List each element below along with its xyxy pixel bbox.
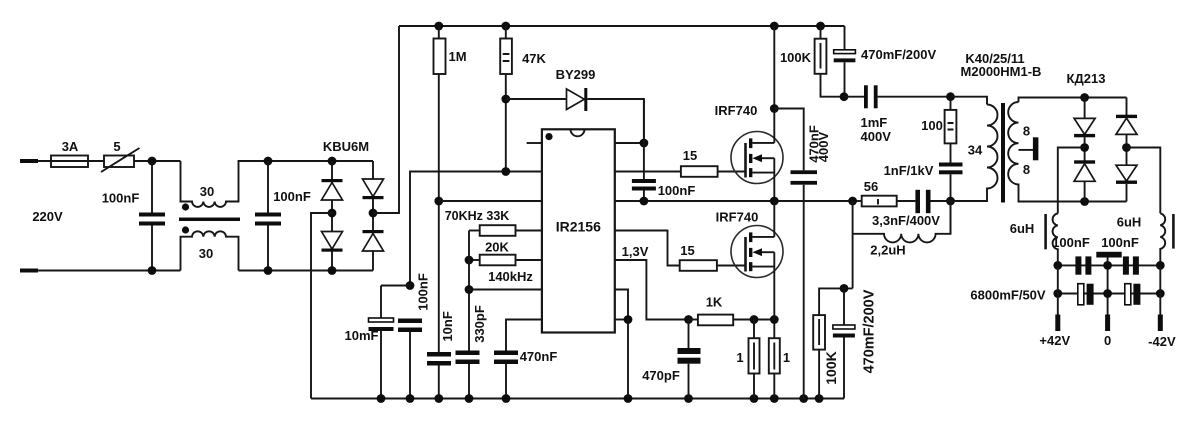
node bridge plus	[369, 209, 378, 218]
node out row2	[1103, 289, 1112, 298]
diode КД213 D7 (right-top)	[1126, 98, 1128, 116]
node ground 100K	[815, 394, 824, 403]
Q1 drain stub	[752, 142, 774, 144]
terminal 0	[1105, 315, 1110, 332]
svg-text:100nF: 100nF	[1052, 235, 1090, 250]
svg-text:220V: 220V	[32, 209, 63, 224]
node ground pin8	[624, 394, 633, 403]
node 470nF400V tap	[770, 104, 779, 113]
resistor 100K (lower)	[813, 315, 825, 350]
resistor 1 (left)	[753, 320, 755, 339]
wire pin12 (VS) to switch node	[615, 200, 853, 202]
svg-text:400V: 400V	[861, 129, 892, 144]
capacitor 1mF/400V	[844, 96, 864, 98]
svg-text:470mF/200V: 470mF/200V	[862, 289, 878, 373]
capacitor 10nF	[427, 352, 451, 357]
wire bridge plus to top rail	[373, 26, 399, 213]
capacitor 470nF/400V	[774, 109, 803, 171]
node 10mF junction	[406, 281, 415, 290]
wire pin8 (COM)	[615, 319, 628, 321]
svg-text:400V: 400V	[816, 131, 831, 162]
svg-text:1nF/1kV: 1nF/1kV	[884, 163, 934, 178]
capacitor 470mF/200V (upper)	[844, 26, 846, 50]
node pin12 bootstrap return	[640, 197, 649, 206]
resistor 1M	[438, 26, 440, 39]
fuse 3A	[51, 156, 88, 168]
choke winding 30 (bottom)	[181, 231, 239, 270]
svg-text:1M: 1M	[448, 49, 466, 64]
svg-text:70KHz 33K: 70KHz 33K	[445, 209, 510, 223]
svg-text:100K: 100K	[823, 351, 839, 384]
resistor 100K (upper)	[820, 26, 822, 39]
svg-text:470pF: 470pF	[642, 368, 680, 383]
IC pin1 marker dot	[545, 133, 552, 140]
svg-text:1mF: 1mF	[861, 115, 888, 130]
node out row1	[1053, 261, 1062, 270]
capacitor 6800mF/50V (left)	[1078, 284, 1084, 305]
IC notch	[571, 129, 585, 136]
node 47K to pin2	[501, 167, 510, 176]
capacitor 100nF (input)	[151, 161, 153, 213]
varistor 5	[104, 156, 134, 168]
svg-text:6uH: 6uH	[1010, 221, 1035, 236]
zero bus bar	[1096, 252, 1121, 258]
svg-text:BY299: BY299	[556, 67, 596, 82]
svg-text:47K: 47K	[522, 51, 546, 66]
node BY299 anode junction	[501, 95, 510, 104]
wire pin9	[615, 290, 628, 320]
node out row1	[1103, 261, 1112, 270]
svg-text:470nF: 470nF	[520, 349, 558, 364]
node ground 10mF	[377, 394, 386, 403]
wire lower divider	[819, 288, 853, 315]
capacitor 100nF (after choke)	[267, 161, 269, 213]
Q1 gate plate	[744, 143, 747, 178]
svg-text:10mF: 10mF	[345, 328, 379, 343]
resistor 15 (upper gate)	[681, 166, 718, 177]
node plus output	[1080, 143, 1089, 152]
node rail 100K	[816, 22, 825, 31]
node 1K left junction	[684, 315, 693, 324]
wire 1M to pin3	[438, 74, 440, 352]
wire output row2	[1058, 293, 1161, 295]
svg-text:330pF: 330pF	[472, 305, 487, 343]
node primary bottom	[946, 197, 955, 206]
wire pin13 (HO)	[615, 171, 681, 173]
Q2 source stub	[752, 266, 774, 268]
inductor 6uH (left)	[1053, 214, 1058, 266]
node rail 1M	[434, 22, 443, 31]
capacitor 470pF	[688, 320, 690, 349]
diode bridge D3 (top-right)	[372, 161, 374, 179]
resistor 47K	[505, 26, 507, 39]
svg-text:6uH: 6uH	[1117, 215, 1142, 230]
wire pin8 to ground	[627, 320, 629, 399]
wire minus branch	[1127, 148, 1161, 214]
capacitor 10mF electrolytic	[381, 285, 410, 287]
diode bridge D4 (bottom-right)	[372, 213, 374, 234]
svg-text:+42V: +42V	[1039, 333, 1070, 348]
node 20K left	[465, 256, 474, 265]
node R1a top	[750, 315, 759, 324]
node fuse/cap junction (top)	[148, 157, 157, 166]
svg-text:KBU6M: KBU6M	[323, 139, 369, 154]
wire drain bus Q1	[773, 26, 775, 143]
transistor IRF740 Q2 circle	[731, 226, 783, 278]
node ground 100nF	[406, 394, 415, 403]
node pin14 junction	[640, 139, 649, 148]
node pin8/9 junction	[624, 315, 633, 324]
wire Q2 source down	[773, 252, 775, 338]
svg-text:15: 15	[683, 148, 697, 163]
capacitor 470mF/200V (lower)	[843, 288, 845, 325]
diode bridge D1 (top-left)	[331, 161, 333, 183]
choke core	[179, 218, 240, 222]
wire +42V terminal	[1057, 265, 1059, 315]
svg-text:100nF: 100nF	[415, 273, 430, 311]
svg-text:0: 0	[1104, 333, 1111, 348]
svg-text:IRF740: IRF740	[715, 103, 758, 118]
Q1 source stub	[752, 172, 774, 174]
node bottom junction	[148, 266, 157, 275]
svg-text:-42V: -42V	[1148, 334, 1176, 349]
svg-text:6800mF/50V: 6800mF/50V	[970, 288, 1045, 303]
svg-text:IR2156: IR2156	[556, 219, 601, 235]
svg-text:1K: 1K	[706, 295, 723, 310]
svg-text:100K: 100K	[780, 50, 812, 65]
Q2 body stub with arrow	[761, 251, 774, 253]
capacitor 1nF/1kV	[939, 163, 963, 167]
transformer core	[1001, 103, 1005, 203]
node bridge bottom-left	[328, 266, 337, 275]
svg-text:100nF: 100nF	[273, 189, 311, 204]
wire pin10 (CS)	[615, 260, 689, 320]
node choke out top	[264, 157, 273, 166]
svg-text:2,2uH: 2,2uH	[870, 243, 905, 258]
svg-text:8: 8	[1023, 124, 1030, 139]
wire plus branch	[1058, 148, 1085, 214]
wire pin11 (LO)	[615, 231, 680, 266]
diode КД213 D6 (left-bottom)	[1084, 148, 1086, 161]
node bridge minus	[328, 209, 337, 218]
Q1 channel segments	[749, 138, 752, 148]
resistor 33K	[469, 230, 480, 232]
wire input bottom rail	[38, 270, 181, 272]
svg-text:15: 15	[680, 243, 694, 258]
capacitor 100nF (supply)	[398, 319, 422, 324]
node ground 470pF	[684, 394, 693, 403]
svg-text:100nF: 100nF	[1101, 235, 1139, 250]
Q2 gate plate	[744, 237, 747, 272]
wire choke to bridge (bottom)	[239, 270, 374, 272]
svg-text:5: 5	[113, 139, 120, 154]
svg-text:30: 30	[200, 184, 214, 199]
secondary center tap	[1019, 149, 1034, 151]
wire bridge minus to ground rail	[311, 213, 332, 399]
node ground 330pF	[465, 394, 474, 403]
node minus output	[1122, 143, 1131, 152]
wire pin6	[469, 289, 542, 291]
svg-text:56: 56	[864, 179, 878, 194]
Q1 body-source tie	[773, 158, 775, 201]
svg-text:1,3V: 1,3V	[622, 244, 649, 259]
svg-text:1: 1	[736, 350, 743, 365]
transistor IRF740 Q1 circle	[731, 132, 783, 184]
IC pin1 stub	[527, 142, 542, 144]
wire -42V terminal	[1159, 265, 1161, 315]
svg-text:8: 8	[1023, 162, 1030, 177]
svg-text:M2000HM1-B: M2000HM1-B	[961, 64, 1042, 79]
wire pin2 (RT line)	[410, 172, 542, 286]
wire frequency node	[468, 231, 470, 351]
capacitor 470nF (pin7)	[506, 320, 542, 351]
transformer primary winding 34	[951, 97, 988, 105]
op-amp/IC IR2156 body	[542, 129, 615, 332]
node bus divider	[840, 92, 849, 101]
node ground R1b	[770, 394, 779, 403]
node out row2	[1156, 289, 1165, 298]
resistor 56	[853, 200, 862, 202]
svg-text:100: 100	[921, 118, 943, 133]
node ground 470nF	[502, 394, 511, 403]
node out row1	[1156, 261, 1165, 270]
transformer secondary winding	[1019, 98, 1127, 103]
diode BY299	[506, 98, 567, 100]
svg-text:3,3nF/400V: 3,3nF/400V	[872, 213, 940, 228]
node 56 left junction	[848, 197, 857, 206]
svg-text:140kHz: 140kHz	[488, 269, 533, 284]
capacitor 330pF	[456, 351, 480, 356]
wire Q2 drain from switch node	[773, 201, 775, 237]
svg-text:30: 30	[199, 246, 213, 261]
wire output row1	[1058, 264, 1161, 266]
wire choke to bridge (top)	[239, 160, 374, 162]
220V input terminal (top)	[20, 159, 38, 163]
node ground 470nF400V	[799, 394, 808, 403]
svg-text:IRF740: IRF740	[716, 210, 759, 225]
wire varistor to node	[134, 160, 181, 162]
Q1 body stub with arrow	[761, 157, 774, 159]
node cap bottom	[264, 266, 273, 275]
wire +DC top rail	[399, 25, 845, 27]
choke phase dot (top)	[182, 203, 189, 210]
wire pin14 (VB)	[615, 142, 644, 144]
resistor 15 (lower gate)	[680, 260, 717, 271]
node pin3 junction	[434, 197, 443, 206]
svg-text:100nF: 100nF	[102, 191, 140, 206]
node ground R1a	[750, 394, 759, 403]
node rail 47K	[501, 22, 510, 31]
svg-text:10nF: 10nF	[440, 311, 455, 341]
capacitor 6800mF/50V (right)	[1125, 284, 1131, 305]
inductor 2,2uH	[852, 201, 854, 288]
wire input top to fuse	[38, 160, 104, 162]
svg-text:20K: 20K	[485, 240, 509, 255]
svg-text:3A: 3A	[62, 139, 79, 154]
wire 47K down	[505, 74, 507, 172]
choke phase dot (bottom)	[182, 226, 189, 233]
capacitor 100nF (out right)	[1123, 256, 1129, 274]
node switch node	[770, 197, 779, 206]
svg-text:100nF: 100nF	[658, 183, 696, 198]
wire pin3	[439, 200, 542, 202]
node ground 10nF	[434, 394, 443, 403]
svg-text:34: 34	[968, 143, 983, 158]
resistor 20K	[469, 259, 480, 261]
diode bridge D2 (bottom-left)	[331, 213, 333, 232]
diode КД213 D8 (right-bottom)	[1126, 148, 1128, 166]
inductor 6uH (right)	[1160, 213, 1165, 265]
svg-text:КД213: КД213	[1067, 71, 1106, 86]
Q2 channel segments	[749, 232, 752, 242]
node secondary top	[1080, 93, 1089, 102]
node primary top	[946, 92, 955, 101]
node rail drain	[770, 22, 779, 31]
capacitor 3,3nF/400V	[915, 190, 920, 213]
capacitor 100nF (bootstrap)	[643, 99, 645, 179]
node R1b top	[770, 315, 779, 324]
svg-text:470mF/200V: 470mF/200V	[861, 47, 936, 62]
node out row2	[1053, 289, 1062, 298]
node secondary bottom	[1080, 197, 1089, 206]
node 470mF lower top	[840, 284, 849, 293]
capacitor 100nF (out left)	[1075, 256, 1081, 274]
resistor 1K	[689, 319, 698, 321]
diode КД213 D5 (left-top)	[1084, 98, 1086, 119]
node pin6 junction	[465, 285, 474, 294]
choke winding 30 (top)	[181, 161, 269, 207]
resistor 1 (right)	[769, 338, 780, 373]
resistor 100	[950, 97, 952, 110]
svg-text:1: 1	[783, 350, 790, 365]
Q2 drain stub	[752, 236, 774, 238]
node bridge top-left	[328, 157, 337, 166]
wire ground rail	[311, 398, 844, 400]
220V input terminal (bottom)	[20, 269, 38, 273]
